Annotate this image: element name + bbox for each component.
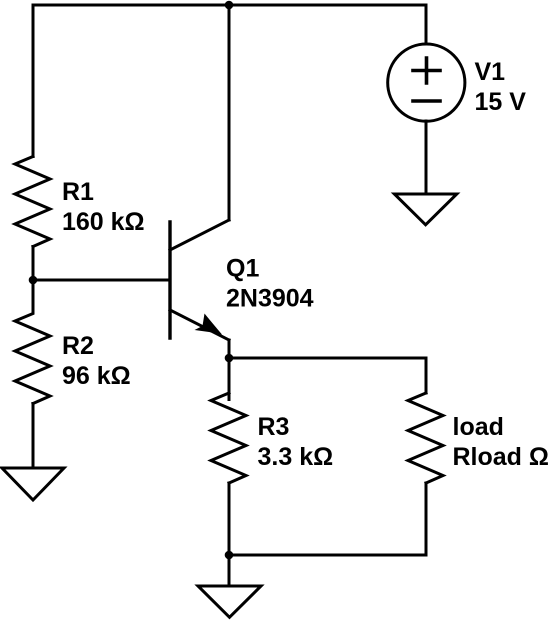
resistor R2: [15, 280, 50, 404]
wire bottom rail: [229, 554, 426, 557]
svg-text:R2: R2: [62, 332, 94, 360]
junction node top (collector tap): [225, 1, 234, 10]
transistor Q1 collector diagonal: [170, 220, 229, 250]
ground (bottom, below R3/load): [198, 586, 261, 617]
svg-text:2N3904: 2N3904: [226, 285, 314, 313]
wire R2 bottom to ground: [32, 404, 35, 469]
wire R1 bottom to node B: [32, 247, 35, 281]
wire V1 bottom to ground: [425, 121, 428, 194]
svg-text:Rload Ω: Rload Ω: [453, 443, 549, 471]
junction node bottom (R3/load/ground): [225, 551, 234, 560]
svg-text:160 kΩ: 160 kΩ: [62, 208, 145, 236]
svg-text:V1: V1: [475, 58, 506, 86]
transistor Q1 emitter diagonal: [170, 310, 229, 340]
wire load bottom to bottom rail: [425, 483, 428, 555]
svg-text:3.3 kΩ: 3.3 kΩ: [258, 443, 334, 471]
resistor load (Rload): [408, 393, 443, 483]
wire emitter rail: [229, 357, 426, 360]
svg-text:15 V: 15 V: [475, 88, 527, 116]
transistor Q1 base bar: [168, 222, 171, 338]
ground (below V1): [394, 194, 456, 225]
voltage source V1 circle: [388, 44, 465, 121]
wire left vertical (top rail to R1): [32, 5, 35, 157]
resistor R3: [211, 393, 246, 483]
ground (left, below R2): [2, 468, 64, 500]
wire load branch vertical top: [425, 358, 428, 393]
resistor R1: [15, 157, 50, 247]
svg-text:Q1: Q1: [226, 255, 259, 283]
transistor Q1 emitter arrowhead: [195, 314, 223, 335]
wire top rail to V1: [425, 5, 428, 44]
wire collector vertical: [228, 5, 231, 220]
wire bottom rail to ground: [228, 555, 231, 586]
wire emitter to node E: [228, 340, 231, 358]
svg-text:load: load: [453, 413, 504, 441]
wire top rail: [33, 4, 426, 7]
wire R3 bottom to bottom rail: [228, 483, 231, 555]
svg-text:R3: R3: [258, 413, 290, 441]
wire base (node B to Q1 base): [33, 279, 170, 282]
V1 minus sign: [413, 99, 440, 103]
svg-text:R1: R1: [62, 178, 94, 206]
svg-text:96 kΩ: 96 kΩ: [62, 362, 131, 390]
V1 plus sign: [413, 58, 440, 83]
wire node E to R3: [228, 358, 231, 400]
junction node B (R1/R2/base): [29, 276, 38, 285]
junction node E (emitter/R3/load): [225, 354, 234, 363]
